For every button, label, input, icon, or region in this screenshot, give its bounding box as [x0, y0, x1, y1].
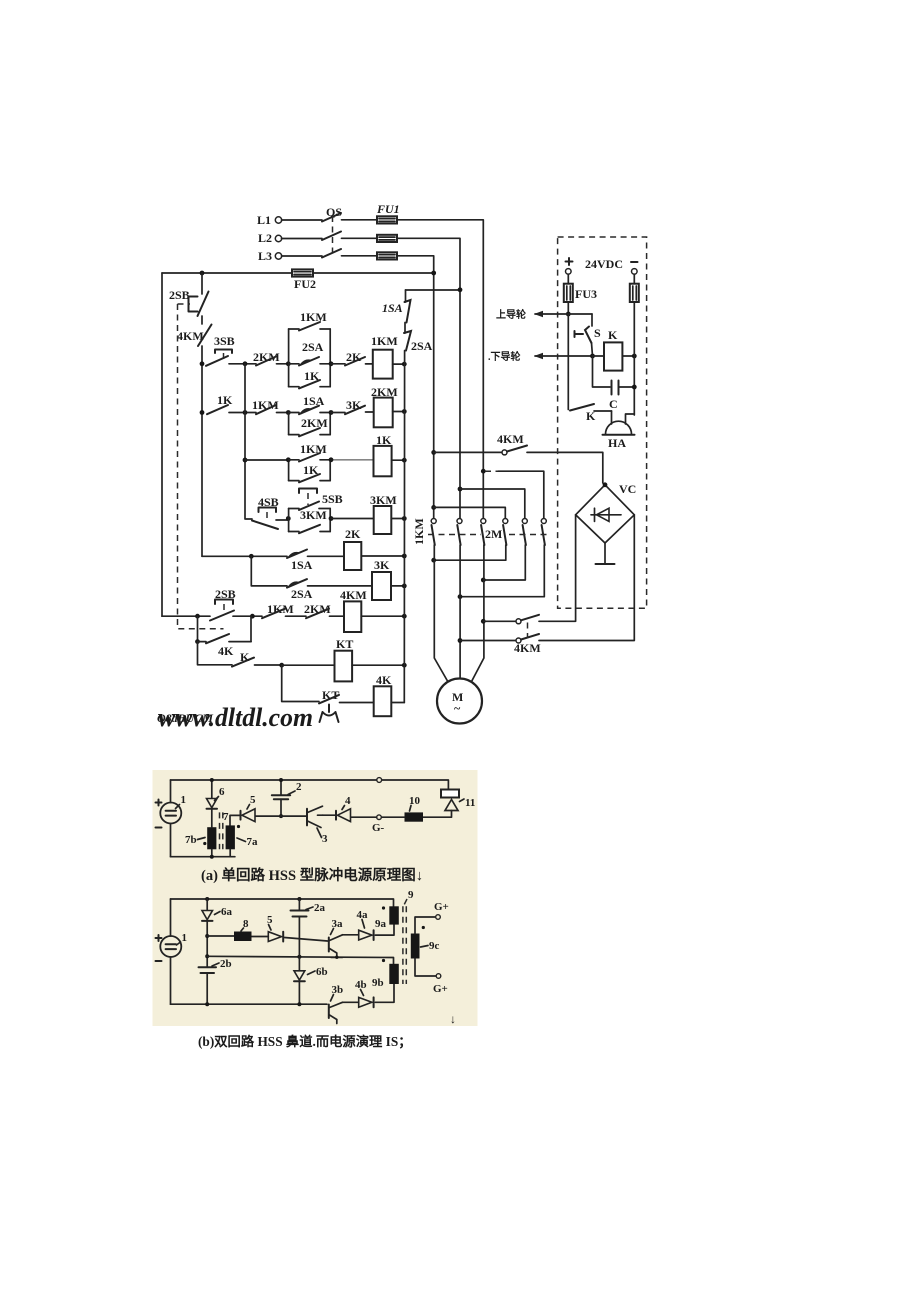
fuse FU1 pole 1: [377, 216, 397, 223]
(a) transistor 3: [307, 806, 328, 845]
contact 2KM row7: [304, 602, 331, 618]
svg-text:2SA: 2SA: [411, 339, 433, 353]
node phaseB crossover: [458, 487, 463, 492]
wire 4KM top to bridge: [527, 452, 603, 483]
svg-text:HA: HA: [608, 436, 626, 450]
(a) wire diode6 to 7b: [211, 809, 213, 828]
contact 2KM (NO) row1: [253, 350, 280, 366]
wire coil 2KM to rail: [393, 411, 405, 413]
svg-text:KT: KT: [336, 637, 353, 651]
(b) upper row wire: [207, 936, 327, 941]
(a) wire diode5 to winding 7a: [230, 815, 241, 825]
node phaseA 4KM row: [431, 450, 436, 455]
wire col4 return to A: [434, 545, 506, 560]
svg-text:2K: 2K: [345, 527, 361, 541]
svg-text:4KM: 4KM: [497, 432, 524, 446]
contact 4KM brake upper: [516, 615, 539, 624]
wire coil 3K to rail: [391, 585, 404, 587]
svg-text:9a: 9a: [375, 918, 387, 930]
wire row1 after box: [331, 363, 345, 365]
wire control tap row: [406, 289, 461, 291]
(b) node bottom mid: [297, 1002, 301, 1006]
node 4K left: [195, 639, 200, 644]
switch QS pole 3: [322, 249, 341, 258]
svg-text:2KM: 2KM: [301, 416, 328, 430]
node box2 left: [286, 410, 291, 415]
contact K row9: [232, 650, 282, 667]
SECTION: watermark: [157, 703, 313, 732]
(b) winding 9a: [375, 889, 414, 930]
fuse FU2: [292, 269, 313, 276]
contact 3K row2: [345, 398, 365, 414]
contact 4K bypass: [198, 634, 252, 658]
(b) capacitor 2a: [291, 899, 326, 957]
(b) wire 9c to G+: [415, 917, 436, 934]
(b) transformer core 9 dashed: [403, 906, 406, 984]
svg-text:L1: L1: [257, 213, 271, 227]
node K coil left: [590, 354, 595, 359]
wire brake upper to bridge left: [539, 515, 576, 622]
wire row3 to coil 1K: [331, 459, 374, 461]
wire L2 phase B down: [397, 238, 460, 518]
wire L3 phase A down: [397, 256, 434, 519]
capacitor C: [609, 381, 634, 412]
svg-text:6b: 6b: [316, 966, 328, 978]
dashed gang link brake contacts: [527, 623, 529, 639]
svg-text:G+: G+: [433, 983, 448, 995]
wire row1 left: [229, 363, 256, 365]
node rail row5: [402, 554, 407, 559]
svg-text:3SB: 3SB: [214, 334, 235, 348]
(a) wire G- to diode4: [351, 816, 377, 818]
wire row6 to coil 3K: [308, 585, 373, 587]
wire K coil left down: [593, 356, 611, 387]
contact KT delayed: [319, 688, 339, 722]
node row7 left: [195, 614, 200, 619]
(a) transformer winding 7b: [185, 827, 216, 849]
svg-text:1SA: 1SA: [303, 394, 325, 408]
rectifier VC bridge: [576, 482, 637, 543]
wire v251 row5-row6: [251, 556, 287, 586]
contact 2SA box1 mid: [289, 340, 331, 366]
svg-text:2SA: 2SA: [302, 340, 324, 354]
wire + rail down to K contact: [567, 314, 569, 410]
node K row: [279, 663, 284, 668]
wire left inner rail: [201, 273, 203, 556]
(a) node cap2 top: [279, 778, 283, 782]
switch S limit: [575, 326, 602, 343]
svg-text:(b)双回路 HSS 鼻道.而电源演理 IS；: (b)双回路 HSS 鼻道.而电源演理 IS；: [198, 1033, 412, 1050]
svg-text:2a: 2a: [314, 902, 326, 914]
(b) node emitter 3a: [335, 956, 338, 959]
svg-text:2SA: 2SA: [291, 587, 313, 601]
wire FU2 row: [162, 272, 434, 274]
wire phaseB to motor: [459, 545, 461, 679]
branch box2 frame: [289, 413, 331, 435]
wire coil 2K to rail: [361, 555, 404, 557]
(a) wire 10 to G-: [381, 816, 404, 818]
contact 1KM box1 top: [289, 310, 331, 331]
contactor 1KM main contacts: [412, 518, 486, 545]
svg-text:2: 2: [296, 781, 302, 793]
svg-text:1KM: 1KM: [300, 442, 327, 456]
wire v245 rows1-4: [244, 364, 246, 519]
wire coil 4K to rail corner: [391, 702, 404, 704]
wire QS to FU1 pole3: [342, 255, 378, 257]
dashed enclosure 24VDC box: [558, 237, 647, 608]
wire to coil 1KM: [366, 363, 373, 365]
contact 4KM brake lower: [514, 634, 541, 655]
(a) capacitor 2: [272, 780, 302, 816]
svg-text:5SB: 5SB: [322, 492, 343, 506]
node control rail top: [200, 271, 205, 276]
svg-text:2M: 2M: [485, 527, 502, 541]
svg-text:7a: 7a: [247, 836, 259, 848]
wire row5 left: [202, 555, 287, 557]
svg-text:4KM: 4KM: [177, 329, 204, 343]
(b) diode 4b: [355, 979, 374, 1007]
svg-text:1: 1: [182, 932, 188, 944]
(b) wire 6b down: [298, 981, 300, 1004]
contact 3KM box4 bottom: [289, 525, 331, 533]
(b) wire 3a collector to 4a: [343, 934, 359, 936]
wire S to node: [592, 343, 593, 356]
contact 1SA row5: [287, 550, 313, 573]
QS gang linkage dashed: [332, 216, 334, 252]
svg-text:QS: QS: [326, 205, 342, 219]
(b) terminal G+: [434, 901, 449, 919]
wire row7: [286, 615, 307, 617]
svg-text:K: K: [608, 328, 618, 342]
contact K alarm: [570, 404, 612, 423]
(b) winding 9b: [372, 959, 399, 989]
contact 1SA box2 top: [289, 394, 331, 414]
svg-text:1KM: 1KM: [300, 310, 327, 324]
svg-text:C: C: [609, 397, 618, 411]
svg-text:(a) 单回路 HSS 型脉冲电源原理图↓: (a) 单回路 HSS 型脉冲电源原理图↓: [201, 866, 423, 884]
wire row7 to coil 4KM: [330, 615, 345, 617]
(b) wire left rail: [170, 899, 172, 1004]
(b) node top left: [205, 897, 209, 901]
wire upper guide arrow: [534, 311, 592, 317]
contact 1K box3 bottom: [289, 463, 331, 482]
svg-text:L3: L3: [258, 249, 272, 263]
switch QS pole 1: [322, 213, 341, 222]
(a) diode 4: [336, 795, 351, 822]
beige background panel: [153, 770, 478, 1026]
(a) source 1: [156, 794, 187, 828]
(b) transistor 3b: [329, 984, 343, 1024]
svg-text:7: 7: [223, 811, 229, 823]
node row2 left: [200, 410, 205, 415]
node row5 v251: [249, 554, 254, 559]
wire L3 to QS: [282, 255, 323, 257]
wire phaseA to motor: [434, 545, 447, 681]
(a) wire gap to output: [423, 811, 452, 818]
svg-text:1K: 1K: [217, 393, 233, 407]
(a) terminal G-: [372, 815, 385, 834]
motor M: [437, 679, 482, 724]
(b) diode 6a: [202, 899, 233, 921]
SECTION: motor power circuit: [412, 237, 647, 724]
SECTION: beige panel with schematics a and b: [153, 770, 478, 1050]
label -: [631, 261, 638, 263]
wire coil 3KM to rail: [391, 518, 404, 520]
svg-text:3K: 3K: [374, 558, 390, 572]
terminal -24V: [632, 269, 638, 275]
(b) diode 6b: [294, 957, 328, 982]
node box3 right: [329, 457, 334, 462]
bell HA: [603, 411, 635, 450]
node row2 v245: [243, 410, 248, 415]
svg-text:↓: ↓: [450, 1012, 456, 1026]
(b) resistor 8: [234, 918, 252, 941]
wire col5 return to C: [483, 545, 525, 580]
contact 2K row1: [345, 350, 365, 366]
(a) bottom wire: [171, 849, 235, 856]
svg-text:3: 3: [322, 833, 328, 845]
node bridge top: [603, 482, 608, 487]
(b) wire 6a down: [206, 921, 208, 967]
contact 1SA top right: [382, 300, 411, 323]
(b) node row upper: [205, 934, 209, 938]
svg-text:G+: G+: [434, 901, 449, 913]
svg-text:FU2: FU2: [294, 277, 316, 291]
node box4 right: [329, 516, 334, 521]
(b) mid rail wire: [207, 956, 393, 964]
wire L1 to QS: [282, 219, 323, 221]
contact 2SA top right: [404, 331, 433, 353]
(b) source 1: [156, 932, 188, 961]
(a) transformer core 7 dashed: [220, 811, 230, 849]
label +: [566, 258, 573, 265]
node FU2-phaseA: [431, 271, 436, 276]
wire phaseC to motor: [472, 545, 484, 681]
node C right: [632, 385, 637, 390]
wire coil 4KM to rail: [361, 615, 404, 617]
svg-text:VC: VC: [619, 482, 636, 496]
terminal L1: [257, 213, 282, 227]
(b) wire 9c to G lower: [415, 959, 436, 977]
svg-text:3KM: 3KM: [370, 493, 397, 507]
wire row2 after box: [331, 412, 345, 414]
svg-text:3KM: 3KM: [300, 508, 327, 522]
coil 4KM: [340, 588, 367, 632]
wire to coil KT: [282, 664, 335, 666]
wire S branch corner: [591, 314, 593, 326]
svg-text:L2: L2: [258, 231, 272, 245]
node rail KT row: [402, 663, 407, 668]
(b) terminal G lower: [433, 974, 448, 995]
wire crossover C to col6: [485, 470, 498, 472]
svg-text:24VDC: 24VDC: [585, 257, 623, 271]
wire row7 mid: [233, 615, 262, 617]
svg-text:S: S: [594, 326, 601, 340]
wire 4K bypass left: [197, 616, 199, 641]
wire coil KT to rail: [352, 664, 404, 666]
(a) terminal on top bus: [377, 778, 382, 783]
contact 1KM row7: [262, 602, 294, 618]
svg-text:1SA: 1SA: [291, 558, 313, 572]
svg-text:.下导轮: .下导轮: [488, 350, 521, 363]
(b) top bus wire: [171, 899, 394, 906]
(b) diode 5: [267, 914, 283, 942]
node rail row2: [402, 409, 407, 414]
svg-text:1: 1: [181, 794, 187, 806]
wire brake lower to bridge right: [539, 515, 634, 641]
(b) node top mid: [297, 897, 301, 901]
wire brake row lower: [460, 640, 516, 642]
wire KT contact to coil 4K: [340, 702, 374, 704]
wire right control rail: [404, 290, 405, 703]
wire KT branch down: [282, 665, 319, 701]
pushbutton 5SB box4 top: [289, 489, 343, 511]
(b) wire 3b collector to 4b: [343, 1001, 359, 1003]
svg-text:1KM: 1KM: [371, 334, 398, 348]
(a) diode 5: [241, 794, 257, 822]
node phaseC crossover: [481, 469, 486, 474]
wire QS to FU1 pole2: [342, 237, 378, 239]
svg-text:FU1: FU1: [376, 202, 400, 216]
(a) wire transistor to diode5: [256, 815, 307, 817]
node brake tap B: [458, 638, 463, 643]
node rail row3: [402, 458, 407, 463]
wire 4KM brake top row: [434, 451, 502, 453]
svg-text:4K: 4K: [376, 673, 392, 687]
wire row7 left from outer rail: [162, 615, 210, 617]
(a) top bus wire: [171, 780, 449, 790]
svg-text:2b: 2b: [220, 958, 232, 970]
(a) wire diode4 to transistor3: [323, 814, 337, 816]
wire L2 to QS: [282, 238, 323, 240]
node return A: [431, 558, 436, 563]
wire row4 to coil 3KM: [331, 518, 374, 520]
wire crossover B to col5: [460, 489, 525, 518]
(b) diode 4a: [357, 909, 374, 940]
pushbutton 4SB (NC) row4: [246, 495, 288, 529]
svg-text:9: 9: [408, 889, 414, 901]
(a) node cap2 bottom: [279, 814, 283, 818]
terminal L2: [258, 231, 282, 245]
coil 1KM: [371, 334, 398, 379]
contact 1KM row2: [252, 398, 279, 414]
wire minus rail: [633, 302, 635, 415]
node row1 v245: [243, 361, 248, 366]
svg-text:9c: 9c: [429, 940, 440, 952]
(a) diode 6: [207, 780, 226, 809]
terminal L3: [258, 249, 282, 263]
wire brake row upper: [483, 620, 516, 622]
terminal +24V: [566, 269, 572, 275]
wire row5 to coil 2K: [308, 555, 345, 557]
(b) transistor 3a: [329, 918, 343, 957]
(b) wire 4b to 9b: [375, 984, 394, 1002]
svg-text:1K: 1K: [376, 433, 392, 447]
svg-text:G-: G-: [372, 822, 385, 834]
branch box3 frame: [289, 460, 331, 481]
coil 3KM: [370, 493, 397, 534]
(a) wire left rail: [170, 780, 172, 857]
(a) node bottom: [210, 855, 214, 859]
branch box4 frame: [289, 509, 331, 532]
wire 4K bypass right up: [250, 616, 252, 641]
dashed gang link contact bank: [428, 534, 548, 536]
(b) capacitor 2b: [199, 958, 232, 1004]
svg-text:1SA: 1SA: [382, 301, 403, 315]
wire row2 to box2: [277, 412, 289, 414]
contact 2KM box2 bottom: [289, 416, 331, 436]
(a) node diode6 top: [210, 778, 214, 782]
node row7 v251: [250, 614, 255, 619]
node phaseA crossover: [431, 505, 436, 510]
fuse FU1 pole 3: [377, 252, 397, 259]
coil 1K: [374, 433, 393, 476]
pushbutton 3SB (NO): [206, 334, 235, 366]
node row3 v245: [243, 458, 248, 463]
wire row1 to box1: [277, 363, 289, 365]
node box1 left: [286, 361, 291, 366]
svg-text:FU3: FU3: [575, 287, 597, 301]
ground from bridge: [596, 543, 615, 564]
node rail row4: [402, 516, 407, 521]
svg-text:4KM: 4KM: [340, 588, 367, 602]
node rail row7: [402, 614, 407, 619]
svg-text:6a: 6a: [221, 906, 233, 918]
contact 1KM box3 top: [289, 442, 331, 462]
(b) node bottom left: [205, 1002, 209, 1006]
svg-text:5: 5: [250, 794, 256, 806]
row1: node left: [200, 361, 205, 366]
(b) node row mid: [205, 954, 209, 958]
wire QS to FU1: [342, 219, 378, 221]
svg-text:上导轮: 上导轮: [496, 308, 526, 321]
node box3 left: [286, 457, 291, 462]
(b) winding 9c secondary: [411, 926, 440, 959]
wire L1 phase C down: [397, 220, 483, 519]
wire coil 1KM to rail: [393, 363, 405, 365]
coil 4K: [374, 673, 392, 716]
node rail row6: [402, 584, 407, 589]
pushbutton 2SB lower (NC): [210, 587, 236, 621]
fuse FU3 right: [630, 274, 639, 302]
wire row2 left: [229, 412, 256, 414]
node box4 left: [286, 516, 291, 521]
contact 2SA row6: [287, 579, 313, 601]
wire coil 1K to rail: [392, 459, 405, 461]
svg-text:4K: 4K: [218, 644, 234, 658]
svg-text:6: 6: [219, 786, 225, 798]
coil 2K: [344, 527, 361, 570]
fuse FU3 left: [564, 274, 597, 302]
wire col6 return to B: [460, 545, 544, 597]
node box1 right: [329, 361, 334, 366]
(a) inductor 10: [405, 795, 424, 822]
(a) workpiece electrode block: [441, 790, 459, 798]
svg-text:7b: 7b: [185, 834, 197, 846]
wire K row left: [198, 642, 233, 665]
svg-text:1KM: 1KM: [412, 518, 426, 545]
node + distribution: [566, 312, 571, 317]
svg-text:9b: 9b: [372, 977, 384, 989]
wire to coil 2KM: [366, 411, 374, 413]
coil 3K: [372, 558, 391, 600]
dashed link 2SB gang: [178, 304, 224, 629]
(b) node mid rail: [297, 955, 301, 959]
wire +rail to node: [567, 302, 569, 314]
node brake tap C: [481, 619, 486, 624]
(b) bottom wire: [171, 1003, 328, 1005]
wire crossover A to col4: [434, 507, 506, 518]
